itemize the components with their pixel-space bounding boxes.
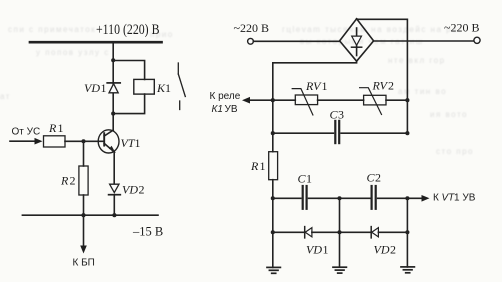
svg-text:1: 1 xyxy=(322,79,328,93)
resistor R2 xyxy=(79,166,88,195)
node A junction dot xyxy=(111,58,115,62)
junction dot C3 rail right xyxy=(405,131,409,135)
wire left terminal to bridge xyxy=(253,40,339,42)
junction dot VD rail left xyxy=(271,230,275,234)
svg-text:R: R xyxy=(250,159,259,173)
diode VD1 right xyxy=(305,227,312,238)
wire right vertical C rail to ground xyxy=(406,198,408,267)
label RV2 xyxy=(372,79,395,93)
wire RV2 to right vertical xyxy=(386,99,407,101)
wire bridge top to right vertical xyxy=(357,19,408,100)
svg-text:–15 В: –15 В xyxy=(132,225,163,239)
svg-text:1: 1 xyxy=(101,81,107,95)
wire VD rail left xyxy=(273,231,304,233)
junction dot C3 rail left xyxy=(271,131,275,135)
svg-text:2: 2 xyxy=(388,79,394,93)
relay contact K1 xyxy=(178,63,185,110)
capacitor C1 xyxy=(273,186,340,209)
arrow to VT1 UV xyxy=(407,195,429,202)
svg-text:2: 2 xyxy=(139,183,145,197)
faint print bleed-through background texts xyxy=(282,25,463,34)
rail -15V xyxy=(22,214,158,216)
svg-text:VD: VD xyxy=(84,81,100,95)
junction dot C rail middle xyxy=(337,196,341,200)
label ~220V left xyxy=(234,21,270,35)
wire RV rail left xyxy=(273,99,296,101)
svg-text:~220 В: ~220 В xyxy=(234,21,270,35)
svg-text:1 УВ: 1 УВ xyxy=(454,192,476,203)
junction dot C rail left xyxy=(271,196,275,200)
varistor RV2 xyxy=(360,88,386,115)
wire bridge right to terminal xyxy=(374,40,474,42)
wire K1 branch top xyxy=(113,61,144,80)
svg-text:К1: К1 xyxy=(212,104,223,115)
label K BP xyxy=(73,258,95,269)
svg-text:~220 В: ~220 В xyxy=(444,21,480,35)
wire RV1 to RV2 xyxy=(318,99,364,101)
label C2 xyxy=(367,171,382,185)
node B junction dot xyxy=(111,112,115,116)
label +110 (220) V xyxy=(96,22,160,38)
junction dot RV rail left xyxy=(271,98,275,102)
svg-text:1: 1 xyxy=(135,136,141,150)
svg-text:1: 1 xyxy=(323,243,329,257)
arrow to relay K1 xyxy=(242,97,273,104)
wire emitter down xyxy=(113,153,115,184)
wire left vertical to ground xyxy=(272,232,274,267)
junction dot rail left xyxy=(81,213,85,217)
svg-text:2: 2 xyxy=(70,174,76,188)
wire R2 to rail xyxy=(83,195,85,215)
output arrow to BP xyxy=(80,215,87,253)
wire VD2 to rail xyxy=(113,195,115,216)
ground right xyxy=(401,267,414,273)
wire bus to node A xyxy=(112,42,114,60)
svg-text:+110 (220) В: +110 (220) В xyxy=(96,22,160,38)
label K VT1 UV xyxy=(433,192,476,203)
junction dot rail right xyxy=(112,213,116,217)
wire bridge bottom to left vertical xyxy=(273,61,357,100)
label VD2 xyxy=(122,183,145,197)
svg-text:1: 1 xyxy=(306,172,312,186)
wire VD2 to right vertical xyxy=(378,231,407,233)
svg-text:1: 1 xyxy=(165,81,171,95)
label VT1 xyxy=(121,136,141,150)
wire R1 to base xyxy=(65,140,104,142)
terminal right xyxy=(474,37,480,43)
wire VD rail middle to VD2 xyxy=(340,231,371,233)
resistor R1 xyxy=(44,136,66,147)
wire VD1 to middle xyxy=(312,231,340,233)
wire middle vertical xyxy=(339,198,341,267)
wire base to R2 xyxy=(83,141,85,166)
capacitor C2 xyxy=(340,186,408,209)
ground middle xyxy=(333,267,346,273)
svg-text:К реле: К реле xyxy=(210,91,241,102)
svg-text:К БП: К БП xyxy=(73,258,95,269)
label R1 xyxy=(48,121,64,135)
capacitor C3 xyxy=(273,121,408,143)
svg-text:R: R xyxy=(60,174,69,188)
svg-text:RV: RV xyxy=(372,79,389,93)
wire collector up xyxy=(112,114,114,131)
label RV1 xyxy=(305,79,328,93)
wire left vertical C3 to R1 xyxy=(272,133,274,152)
label VD1 right xyxy=(306,243,329,257)
svg-text:От УС: От УС xyxy=(12,127,41,138)
junction dot RV rail right xyxy=(405,98,409,102)
label K rele K1 UV xyxy=(210,91,241,115)
diode VD2 right xyxy=(371,227,378,238)
relay coil K1 xyxy=(134,79,155,94)
svg-text:VD: VD xyxy=(122,183,138,197)
svg-text:К: К xyxy=(433,192,439,203)
diode VD1 xyxy=(107,83,120,93)
junction dot VD rail right xyxy=(405,230,409,234)
node base junction dot xyxy=(81,139,85,143)
svg-text:2: 2 xyxy=(390,243,396,257)
label R2 xyxy=(60,174,76,188)
ground left xyxy=(267,267,280,273)
wire left vertical to C3 rail xyxy=(272,100,274,133)
label VD2 right xyxy=(374,243,397,257)
svg-text:УВ: УВ xyxy=(225,104,238,115)
label -15V xyxy=(132,225,163,239)
input arrow from US xyxy=(10,138,43,145)
svg-text:1: 1 xyxy=(260,159,266,173)
wire VD1 branch vertical xyxy=(112,60,114,113)
varistor RV1 xyxy=(292,89,317,115)
label ~220V right xyxy=(444,21,480,35)
wire left vertical C rail to VD rail xyxy=(272,198,274,232)
diode VD2 xyxy=(109,184,121,195)
svg-text:R: R xyxy=(48,121,57,135)
junction dot C rail right xyxy=(405,196,409,200)
bridge internal diode xyxy=(352,28,362,56)
resistor R1 right xyxy=(269,152,278,180)
svg-text:3: 3 xyxy=(338,108,344,122)
svg-text:2: 2 xyxy=(375,171,381,185)
wire R1 to C rail xyxy=(272,180,274,199)
svg-text:1: 1 xyxy=(58,121,64,135)
bus +110V xyxy=(30,41,162,44)
wire K1 branch bottom xyxy=(113,94,144,114)
label K1 xyxy=(156,81,171,95)
wire right vertical RV to C3 xyxy=(406,100,408,133)
label C1 xyxy=(298,172,313,186)
svg-text:VD: VD xyxy=(374,243,390,257)
label C3 xyxy=(330,108,345,122)
svg-text:RV: RV xyxy=(305,79,322,93)
label Ot US xyxy=(12,127,41,138)
label R1 right xyxy=(250,159,266,173)
bridge rectifier diamond xyxy=(340,19,374,61)
transistor VT1 xyxy=(98,130,119,153)
label VD1 xyxy=(84,81,107,95)
terminal left xyxy=(248,38,254,44)
junction dot VD rail middle xyxy=(337,230,341,234)
svg-text:VD: VD xyxy=(306,243,322,257)
